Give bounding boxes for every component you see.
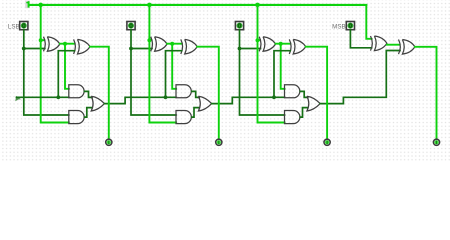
AND gate stage1 AND1 (X1 and Cin): [69, 85, 84, 98]
wire: stage3 carry-out staircase to stage4 XOR2 lower input: [320, 51, 400, 104]
junction stage3 B tap on bus: [255, 3, 260, 8]
output pin S1 (value 1): [216, 139, 222, 145]
XOR gate stage4 XOR1: [371, 36, 387, 51]
wire: stage2 B tap from constant bus down to AND2 lower input: [149, 5, 176, 123]
wire: stage1 B tap from constant bus down to AND2 lower input: [41, 5, 69, 123]
junction A1 branch: [129, 47, 133, 51]
OR gate stage2 (carry out): [198, 96, 211, 111]
output pin S2 (value 1): [324, 139, 330, 145]
AND gate stage3 AND2 (A and B): [285, 111, 300, 124]
wire: stage1 AND1 output to OR upper input: [85, 91, 92, 97]
junction X1 stage3: [279, 42, 283, 46]
wire: stage4 sum S3 to output pin: [415, 47, 437, 140]
OR gate stage1 (carry out): [91, 96, 104, 111]
wire: stage3 AND2 output to OR lower input: [300, 108, 307, 118]
wire: stage4 input A3 from pin to XOR1 lower input: [350, 30, 371, 48]
wire: stage3 XOR1 output to XOR2 upper input: [276, 43, 291, 45]
wire: stage1 sum S0 to output pin: [90, 47, 109, 140]
wire: stage3 X1 riser down to AND1 upper input: [281, 44, 285, 89]
XOR gate stage4 XOR2 (sum MSB): [399, 40, 415, 55]
junction A0 branch: [22, 47, 26, 51]
wire: stage3 B tap from constant bus down to AND2 lower input: [258, 5, 285, 123]
input pin bit 0 LSB (value 0): [20, 22, 28, 30]
wire: constant-1 bus along top: [30, 4, 366, 6]
wire: stage3 AND1 output to OR upper input: [300, 91, 307, 97]
wire: stage1 carry-in riser to XOR2 lower input: [58, 51, 74, 98]
wire: stage1 input A0 from pin down and right to AND2 upper input: [24, 30, 69, 115]
wire: stage1 X1 riser down to AND1 upper input: [65, 44, 69, 89]
wire: stage2 carry-in riser to XOR2 lower input: [166, 51, 182, 98]
wire: stage2 A1 branch to XOR1 lower input: [131, 48, 152, 50]
wire: stage2 AND1 output to OR upper input: [192, 91, 199, 97]
svg-text:LSB: LSB: [8, 23, 20, 30]
wire: stage3 sum S2 to output pin: [306, 47, 327, 140]
XOR gate stage2 XOR1 (A xor B): [151, 37, 167, 52]
OR gate stage3 (carry out): [307, 96, 320, 111]
wire: stage1 carry-in row (Cin=0) into AND1 lower input: [17, 96, 69, 98]
junction X1 stage1: [63, 42, 67, 46]
junction carry riser stage2: [164, 95, 168, 99]
junction stage3 B branch: [256, 38, 260, 42]
wire: stage3 B branch to XOR1 upper input: [258, 39, 261, 41]
output pin S3 (value 1): [433, 139, 439, 145]
junction carry riser stage1: [56, 95, 60, 99]
junction A2 branch: [238, 47, 242, 51]
junction carry riser stage3: [272, 95, 276, 99]
wire: stage2 AND2 output to OR lower input: [192, 108, 199, 118]
wire: stage2 XOR1 output to XOR2 upper input: [167, 43, 182, 45]
junction stage2 B tap on bus: [147, 3, 152, 8]
input pin bit 3 MSB (value 0): [346, 22, 354, 30]
junction stage2 B branch: [147, 38, 151, 42]
AND gate stage2 AND1 (X1 and Cin): [176, 85, 191, 98]
wire: stage3 input A2 from pin down and right to AND2 upper input: [240, 30, 285, 115]
wire: stage1 carry-out to stage2: [105, 97, 177, 103]
XOR gate stage3 XOR1 (A xor B): [259, 37, 275, 52]
svg-text:MSB: MSB: [332, 23, 345, 30]
junction X1 stage2: [170, 42, 174, 46]
input pin bit 1 (value 0): [127, 22, 135, 30]
wire: stage2 X1 riser down to AND1 upper input: [172, 44, 176, 89]
XOR gate stage3 XOR2 (sum): [289, 39, 305, 54]
input pin bit 2 (value 0): [235, 22, 243, 30]
wire: stage2 sum S1 to output pin: [197, 47, 219, 140]
AND gate stage2 AND2 (A and B): [176, 111, 191, 124]
AND gate stage1 AND2 (A and B): [69, 111, 84, 124]
wire: stage4 B tap from bus end to XOR1 upper input: [366, 5, 371, 39]
wire: stage3 A2 branch to XOR1 lower input: [240, 48, 261, 50]
XOR gate stage2 XOR2 (sum): [181, 39, 197, 54]
wire: stage3 carry-in riser to XOR2 lower input: [274, 51, 290, 98]
wire: stage2 carry-out to stage3: [212, 97, 285, 103]
wire: stage1 AND2 output to OR lower input: [85, 108, 92, 118]
AND gate stage3 AND1 (X1 and Cin): [285, 85, 300, 98]
dangling carry-in end marker: [15, 96, 21, 101]
wire: stage1 A0 branch to XOR1 lower input: [24, 48, 45, 50]
wire: stage4 XOR1 output to XOR2 upper input: [387, 44, 400, 46]
wire: stage1 XOR1 output to XOR2 upper input: [60, 43, 75, 45]
output pin S0 (value 1): [106, 139, 112, 145]
XOR gate stage1 XOR1 (A xor B): [44, 37, 60, 52]
wire: stage2 B branch to XOR1 upper input: [149, 39, 151, 41]
XOR gate stage1 XOR2 (sum): [74, 39, 90, 54]
junction stage1 B branch: [39, 38, 43, 42]
junction stage1 B tap on bus: [38, 3, 43, 8]
constant 1 source: [25, 1, 30, 9]
wire: stage2 input A1 from pin down and right to AND2 upper input: [131, 30, 176, 115]
wire: stage1 B branch to XOR1 upper input: [41, 39, 45, 41]
